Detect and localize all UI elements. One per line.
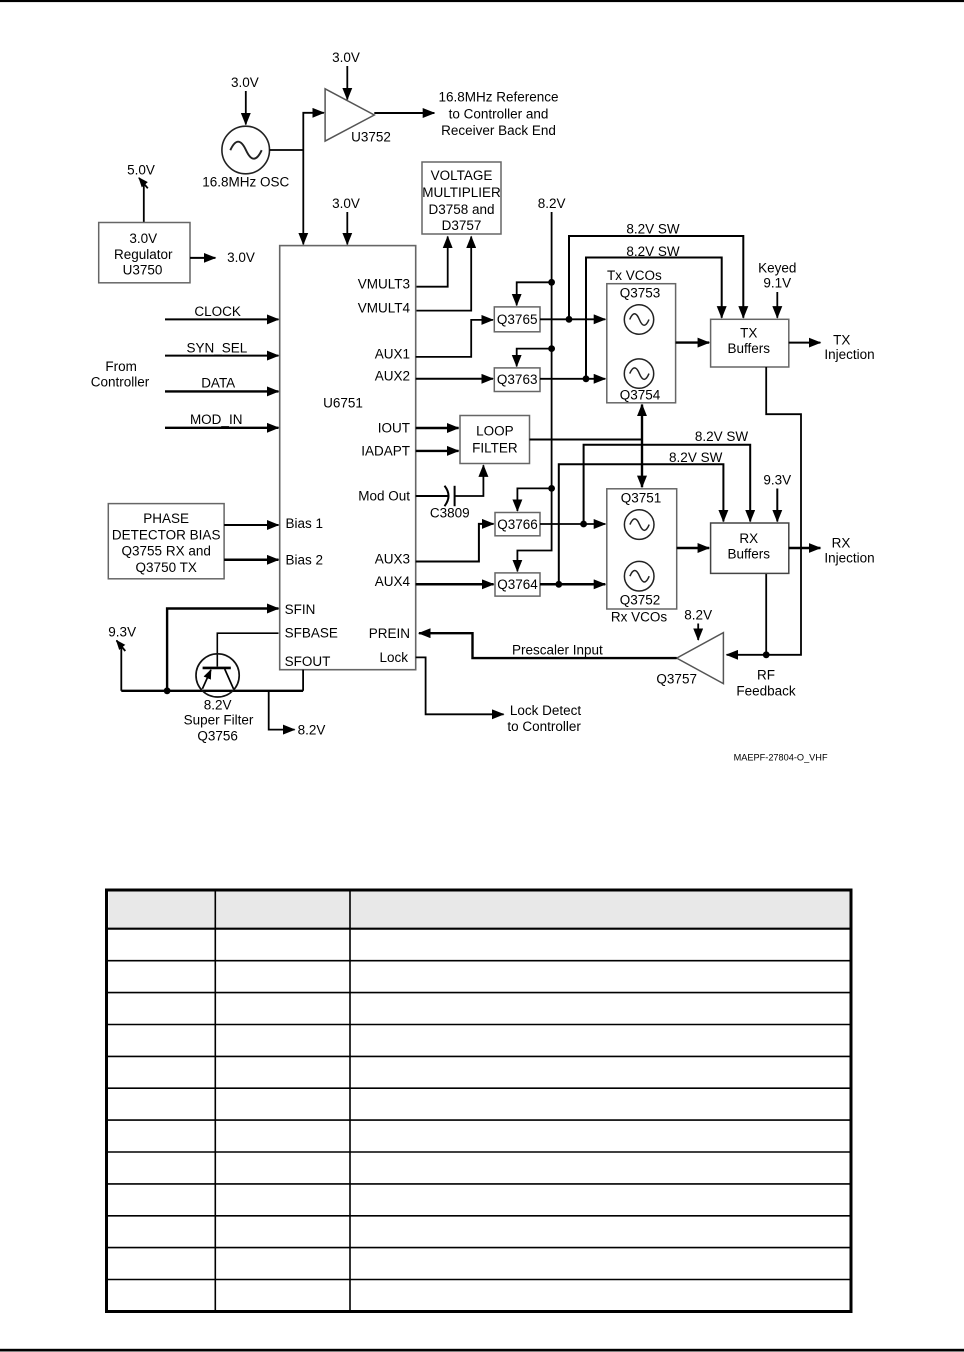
svg-text:IADAPT: IADAPT [361, 444, 410, 459]
svg-text:Prescaler Input: Prescaler Input [512, 643, 603, 658]
wire 3.0V into oscillator [245, 91, 247, 125]
wire RX injection output [789, 547, 821, 550]
wire TX buffers to RF feedback [766, 367, 801, 655]
svg-text:5.0V: 5.0V [127, 163, 155, 178]
wire 8.2V branch to Q3765 [517, 282, 552, 305]
node junction Q3766 output / 8.2V SW [580, 521, 587, 528]
svg-text:SYN_SEL: SYN_SEL [187, 341, 248, 356]
svg-text:TX: TX [833, 332, 850, 347]
wire AUX1 to Q3765 [416, 320, 493, 357]
svg-text:16.8MHz OSC: 16.8MHz OSC [202, 174, 289, 189]
wire buffer output 16.8MHz reference [374, 112, 434, 114]
svg-text:8.2V: 8.2V [204, 697, 232, 712]
svg-text:9.1V: 9.1V [763, 276, 791, 291]
svg-text:D3757: D3757 [442, 218, 482, 233]
svg-text:MAEPF-27804-O_VHF: MAEPF-27804-O_VHF [734, 752, 828, 762]
svg-text:Injection: Injection [824, 347, 874, 362]
svg-text:PHASE: PHASE [143, 511, 189, 526]
svg-text:RF: RF [757, 668, 775, 683]
svg-text:Keyed: Keyed [758, 260, 796, 275]
wire VMULT4 to voltage multiplier [416, 237, 472, 311]
table outer border [107, 890, 852, 1312]
buffer Q3763 box [494, 368, 540, 392]
svg-text:DATA: DATA [201, 376, 235, 391]
node junction Q3764 output / 8.2V SW [555, 581, 562, 588]
svg-text:AUX2: AUX2 [375, 369, 410, 384]
svg-text:Q3766: Q3766 [497, 517, 538, 532]
wire VMULT3 to voltage multiplier [416, 237, 448, 287]
svg-text:U3752: U3752 [351, 129, 391, 144]
wire TX injection output [789, 342, 821, 344]
svg-text:8.2V: 8.2V [298, 722, 326, 737]
node junction 8.2V/Q3763 [548, 345, 555, 352]
svg-text:Q3754: Q3754 [620, 387, 661, 402]
svg-text:Q3763: Q3763 [497, 372, 538, 387]
svg-text:Mod Out: Mod Out [358, 489, 410, 504]
wire Tx VCOs output to TX buffers [676, 341, 710, 343]
transistor Q3756 super filter [196, 654, 239, 697]
svg-text:D3758 and: D3758 and [428, 202, 494, 217]
regulator U3750 box [99, 223, 190, 283]
wire 8.2V branch to Q3763 [517, 349, 552, 367]
svg-text:Tx VCOs: Tx VCOs [607, 268, 662, 283]
wire IOUT to loop filter [416, 427, 459, 429]
svg-text:Q3764: Q3764 [497, 577, 538, 592]
wire IADAPT to loop filter [416, 450, 459, 452]
svg-text:Receiver Back End: Receiver Back End [441, 123, 556, 138]
svg-text:8.2V: 8.2V [684, 608, 712, 623]
wire AUX4 to Q3764 [416, 583, 494, 586]
svg-text:AUX1: AUX1 [375, 347, 410, 362]
svg-text:MULTIPLIER: MULTIPLIER [422, 185, 501, 200]
wire Q3763 output to Tx VCOs [540, 378, 605, 380]
svg-text:From: From [105, 359, 137, 374]
svg-text:3.0V: 3.0V [231, 75, 259, 90]
svg-text:Buffers: Buffers [728, 341, 771, 356]
svg-text:Bias 1: Bias 1 [286, 516, 324, 531]
svg-text:RX: RX [739, 531, 758, 546]
op-amp buffer U3752 [325, 89, 374, 141]
svg-text:Q3753: Q3753 [620, 286, 661, 301]
wire RX buffers bottom to RF feedback [765, 573, 767, 654]
svg-text:3.0V: 3.0V [332, 50, 360, 65]
svg-text:VMULT3: VMULT3 [358, 276, 410, 291]
wire 8.2V SW (from Q3764) to RX buffers [559, 464, 724, 584]
wire 3.0V into U6751 top [346, 212, 348, 244]
svg-text:IOUT: IOUT [378, 421, 410, 436]
wire oscillator output [270, 149, 304, 151]
buffer Q3765 box [494, 307, 540, 332]
wire 8.2V tap output [269, 691, 295, 730]
wire Q3764 output to Rx VCOs [540, 583, 605, 586]
svg-text:Regulator: Regulator [114, 247, 173, 262]
svg-text:8.2V SW: 8.2V SW [695, 429, 749, 444]
node junction Q3763 output / 8.2V SW [583, 375, 590, 382]
voltage multiplier D3758/D3757 box [422, 162, 501, 234]
capacitor C3809 [445, 486, 449, 506]
node junction 8.2V/Q3766 [548, 485, 555, 492]
svg-text:C3809: C3809 [430, 505, 470, 520]
wire SFOUT down to rail [302, 670, 304, 691]
wire Keyed 9.1V into TX buffers [776, 292, 778, 318]
wire 8.2V into prescaler [697, 624, 699, 641]
wire Lock to lock detect [416, 657, 504, 714]
svg-text:to Controller: to Controller [507, 719, 581, 734]
wire Rx VCOs output to RX buffers [677, 547, 710, 550]
wire 8.2V SW (from Q3765) to TX buffers [569, 236, 743, 319]
svg-text:Super Filter: Super Filter [184, 713, 254, 728]
svg-text:Q3756: Q3756 [197, 729, 238, 744]
svg-text:Buffers: Buffers [728, 546, 771, 561]
phase detector bias box [108, 504, 224, 579]
svg-text:PREIN: PREIN [369, 626, 410, 641]
TX buffers box [711, 319, 789, 367]
svg-text:DETECTOR BIAS: DETECTOR BIAS [112, 527, 221, 542]
svg-text:3.0V: 3.0V [129, 231, 157, 246]
svg-text:AUX4: AUX4 [375, 574, 411, 589]
svg-text:8.2V SW: 8.2V SW [626, 244, 680, 259]
oscillator Q3754 [624, 359, 653, 388]
wire loop filter output to VCO select [530, 439, 643, 441]
svg-text:3.0V: 3.0V [227, 250, 255, 265]
svg-text:VOLTAGE: VOLTAGE [431, 168, 493, 183]
svg-text:AUX3: AUX3 [375, 552, 410, 567]
wire 8.2V vertical rail [517, 212, 551, 571]
svg-text:MOD_IN: MOD_IN [190, 412, 243, 427]
svg-text:9.3V: 9.3V [108, 624, 136, 639]
svg-text:Q3757: Q3757 [656, 671, 697, 686]
wire AUX2 to Q3763 [416, 378, 493, 380]
wire SFBASE to transistor base [217, 633, 278, 666]
svg-text:16.8MHz Reference: 16.8MHz Reference [438, 89, 558, 104]
node junction RX buffers / RF feedback [763, 651, 770, 658]
svg-text:RX: RX [832, 536, 851, 551]
svg-text:SFOUT: SFOUT [285, 654, 331, 669]
wire VCO select vertical (up to Tx VCOs, down to Rx VCOs) [641, 405, 643, 440]
svg-text:Q3751: Q3751 [621, 491, 662, 506]
wire 8.2V SW (from Q3763) to TX buffers [586, 258, 722, 379]
svg-text:Feedback: Feedback [736, 684, 796, 699]
svg-text:FILTER: FILTER [472, 441, 518, 456]
svg-text:Q3765: Q3765 [497, 312, 538, 327]
wire 3.0V into buffer U3752 [346, 66, 348, 100]
svg-text:TX: TX [740, 326, 757, 341]
oscillator 16.8MHz OSC [222, 126, 270, 174]
buffer Q3757 prescaler (triangle) [677, 633, 724, 684]
wire 5.0V source arrow [143, 184, 145, 223]
wire Bias 2 [224, 559, 278, 562]
RX buffers box [711, 523, 789, 573]
node junction SFIN/rail [164, 687, 171, 694]
wire 9.3V source arrow [120, 646, 122, 691]
wire regulator 3.0V output [190, 257, 215, 259]
svg-text:9.3V: 9.3V [763, 472, 791, 487]
svg-text:Q3752: Q3752 [620, 593, 661, 608]
svg-text:to Controller and: to Controller and [449, 106, 549, 121]
node junction Q3765 output / 8.2V SW [566, 316, 573, 323]
wire AUX3 to Q3766 [416, 524, 494, 562]
wire prescaler output to PREIN [419, 633, 677, 658]
IC U6751 synthesizer block [280, 246, 416, 670]
svg-text:Q3750 TX: Q3750 TX [136, 560, 197, 575]
wire 8.2V super filter rail [121, 690, 303, 692]
wire capacitor to loop filter bottom [455, 465, 484, 496]
Rx VCOs box [607, 489, 677, 609]
svg-text:U6751: U6751 [323, 396, 363, 411]
wire Bias 1 [224, 524, 278, 526]
svg-text:SFIN: SFIN [285, 602, 316, 617]
wire RF feedback into prescaler [727, 654, 767, 656]
table row lines [105, 960, 851, 962]
svg-text:Lock: Lock [379, 650, 408, 665]
svg-text:VMULT4: VMULT4 [358, 300, 411, 315]
svg-text:Controller: Controller [91, 375, 150, 390]
svg-text:8.2V: 8.2V [538, 196, 566, 211]
svg-text:CLOCK: CLOCK [194, 304, 241, 319]
wire Q3766 output to Rx VCOs [540, 523, 605, 525]
svg-text:SFBASE: SFBASE [285, 626, 338, 641]
wire osc to buffer input [303, 113, 324, 149]
svg-text:LOOP: LOOP [476, 424, 514, 439]
svg-text:U3750: U3750 [123, 262, 163, 277]
wire 9.3V into RX buffers [776, 489, 778, 522]
svg-text:3.0V: 3.0V [332, 196, 360, 211]
svg-text:8.2V SW: 8.2V SW [626, 221, 680, 236]
wire Mod Out to capacitor [416, 495, 449, 497]
wire Q3765 output to Tx VCOs [540, 318, 605, 320]
loop filter box [460, 416, 530, 464]
table header fill [109, 891, 851, 929]
svg-text:Lock Detect: Lock Detect [510, 703, 582, 718]
svg-text:Rx VCOs: Rx VCOs [611, 610, 668, 625]
table column lines [214, 890, 216, 1312]
node junction 8.2V/Q3765 [548, 279, 555, 286]
svg-text:Injection: Injection [824, 551, 874, 566]
wire SFIN [167, 609, 278, 691]
svg-text:8.2V SW: 8.2V SW [669, 450, 723, 465]
svg-text:Q3755 RX and: Q3755 RX and [122, 544, 211, 559]
buffer Q3766 box [495, 513, 540, 536]
oscillator Q3752 [624, 561, 654, 591]
buffer Q3764 box [495, 573, 540, 596]
svg-text:Bias 2: Bias 2 [286, 552, 324, 567]
table header divider [105, 928, 851, 930]
wire 8.2V SW (from Q3766) to RX buffers [584, 445, 751, 524]
wire 8.2V branch to Q3766 [517, 488, 551, 511]
wire osc down to U6751 top [302, 149, 304, 245]
